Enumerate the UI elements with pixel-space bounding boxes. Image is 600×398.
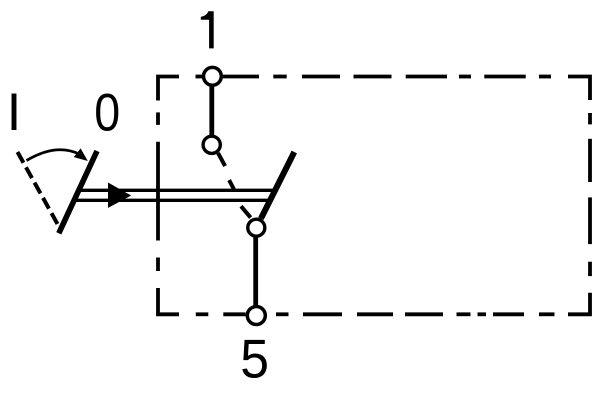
enclosure border bottom-left corner	[158, 288, 179, 314]
svg-text:5: 5	[240, 329, 269, 389]
lower contact pivot circle	[248, 219, 265, 236]
actuation direction arc	[27, 150, 80, 161]
wire terminal 1 to upper contact	[209, 85, 214, 136]
linkage arrowhead	[108, 183, 131, 208]
terminal 1 circle	[204, 67, 222, 85]
upper fixed contact circle	[203, 136, 220, 153]
enclosure border top edge	[196, 75, 552, 79]
enclosure border top-left corner	[158, 77, 179, 101]
wire lower contact to terminal 5	[253, 237, 258, 306]
terminal 5 circle	[247, 307, 265, 325]
enclosure border left edge	[156, 112, 160, 271]
enclosure border bottom-right corner	[568, 293, 590, 315]
actuation arc arrowhead	[74, 148, 88, 161]
terminal label 1	[201, 11, 214, 48]
linkage double line upper	[79, 189, 275, 192]
enclosure border bottom edge	[196, 312, 555, 316]
linkage double line lower	[74, 199, 270, 202]
svg-text:I: I	[7, 83, 22, 142]
actuator lever position 0 (solid)	[59, 151, 97, 233]
enclosure border right edge	[588, 113, 592, 276]
enclosure border top-right corner	[568, 77, 590, 101]
dashed blade closed-position line	[218, 153, 251, 218]
movable contact blade	[261, 152, 294, 219]
svg-text:0: 0	[94, 83, 120, 142]
actuator lever position I (dashed)	[18, 152, 58, 224]
